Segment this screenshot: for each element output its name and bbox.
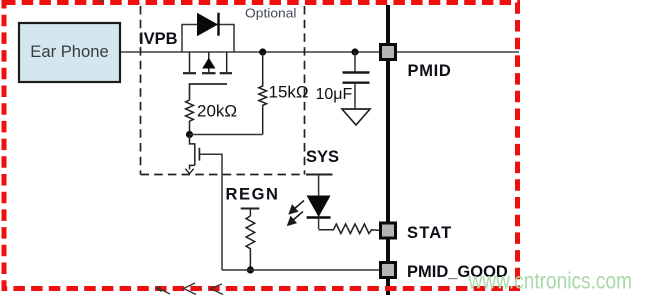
pin PMID_GOOD [381, 263, 396, 278]
transistor Q2 (NMOS gate-pulldown) [185, 135, 222, 271]
svg-text:www.cntronics.com: www.cntronics.com [468, 268, 632, 294]
svg-text:20kΩ: 20kΩ [197, 102, 237, 121]
wire PMID_GOOD rail [222, 269, 380, 271]
cropped mark at top edge [99, 1, 104, 3]
junction node 15k top on main rail [259, 48, 266, 55]
transistor Q1 (PMOS with body diode) [183, 52, 232, 100]
SYS supply T-bar [306, 175, 333, 196]
svg-text:Optional: Optional [245, 6, 297, 21]
svg-text:REGN: REGN [226, 186, 280, 204]
svg-text:Ear Phone: Ear Phone [30, 42, 108, 61]
svg-text:10μF: 10μF [316, 86, 353, 103]
resistor R1 20kOhm [186, 100, 194, 131]
optional-circuit dashed box bottom edge [141, 174, 305, 176]
optional-circuit dashed box left edge [140, 6, 142, 175]
junction node gate divider [186, 131, 193, 138]
optional-circuit dashed box right edge [304, 6, 306, 175]
IC boundary thick vertical line [386, 5, 390, 295]
wire: main rail Ear Phone to PMID and out to border [120, 51, 519, 53]
LED D2 [307, 196, 331, 230]
resistor R3 REGN pull-up [246, 216, 255, 270]
svg-text:IVPB: IVPB [139, 30, 178, 48]
resistor R2 15kOhm [259, 52, 267, 135]
junction node on PMID_GOOD wire [247, 266, 254, 273]
capacitor C1 plates [343, 73, 370, 83]
pin PMID [381, 45, 396, 60]
diode D1 [197, 13, 219, 37]
REGN supply T-bar [241, 209, 260, 217]
svg-text:STAT: STAT [407, 224, 452, 242]
wire: node to 15k bottom [190, 134, 263, 136]
cropped arrow marks at bottom [157, 283, 223, 295]
wire: diode D1 branch loop [182, 25, 234, 53]
LED light emission arrows [288, 201, 304, 226]
svg-text:15kΩ: 15kΩ [269, 83, 309, 102]
svg-text:SYS: SYS [306, 148, 339, 166]
red dashed highlight border [4, 3, 518, 289]
capacitor C1 wire and junction [351, 48, 358, 55]
ground symbol [342, 109, 370, 125]
svg-text:PMID: PMID [408, 62, 452, 80]
pin STAT [381, 223, 396, 238]
resistor R4 STAT series [319, 224, 380, 234]
Ear Phone box [19, 23, 120, 82]
